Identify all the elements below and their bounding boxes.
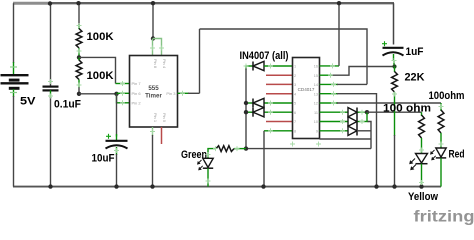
wire: CD4017 pin13 to ground (320, 94, 377, 187)
resistor R5 100ohm (438, 110, 444, 133)
wire: D1 to CD4017 pin row1 (264, 65, 293, 67)
resistor R6 green LED (216, 146, 234, 152)
svg-text:10uF: 10uF (92, 153, 115, 165)
svg-text:100K: 100K (87, 70, 114, 82)
wire: node G row to yellow LED resistor (367, 111, 422, 113)
wire: CD4017 bottom edge run to riser (320, 138, 372, 140)
LED D7 red (430, 148, 446, 160)
wire: bottom ground rail (13, 186, 441, 188)
wire: CD4017 pin16 to VCC rail (320, 3, 340, 66)
wire: top VCC rail (13, 2, 394, 4)
wire: diode bus vertical (245, 69, 247, 149)
capacitor C2 10uF polarized (106, 134, 128, 155)
svg-text:3: 3 (294, 83, 296, 87)
node E junction (244, 101, 248, 105)
svg-text:Green: Green (181, 149, 207, 161)
svg-text:22K: 22K (405, 72, 425, 84)
node F junction (244, 110, 248, 114)
wire: CD4017 pin10 row (320, 121, 349, 123)
capacitor C1 0.1uF (43, 87, 59, 98)
svg-text:Timer: Timer (145, 93, 162, 100)
svg-text:Pin 2: Pin 2 (132, 100, 142, 105)
LED D8 green (197, 158, 213, 170)
node B junction (77, 92, 81, 96)
wire: CD4017 pin11 row (320, 111, 349, 113)
junction dots top rail (48, 1, 341, 6)
svg-text:7: 7 (294, 120, 296, 124)
wire: node G down to D5 row (366, 112, 368, 121)
wire: VCC rail to 555 top pins (152, 3, 154, 38)
wire: row to yellow resistor (421, 112, 423, 116)
svg-text:100ohm: 100ohm (429, 90, 465, 102)
svg-text:Pin 6: Pin 6 (132, 91, 142, 96)
svg-text:Pin 4: Pin 4 (162, 59, 167, 69)
node C junction (114, 92, 118, 96)
svg-text:12: 12 (314, 102, 318, 106)
wire: CD4017 pin9 row (320, 130, 349, 132)
wire: CD4017 pin14 clock row (320, 83, 368, 85)
wire: node D to 555 pin4 (153, 39, 162, 56)
pin labels U1 (132, 59, 177, 123)
wire: CD4017 pin7 red stub (266, 121, 293, 123)
wire: CD4017 pin4 red stub (266, 93, 293, 95)
svg-text:9: 9 (316, 129, 318, 133)
wire: 100K R1 top lead (78, 3, 80, 29)
node G junction (365, 110, 369, 114)
svg-text:6: 6 (294, 111, 296, 115)
diode D6 IN4007 (348, 108, 357, 136)
svg-text:Pin 7: Pin 7 (132, 81, 142, 86)
wire: VCC rail drop to 1uF (393, 3, 395, 44)
wire: pin3 riser (199, 29, 201, 93)
wire: green LED to ground (207, 168, 209, 186)
wire: R4 to yellow LED (421, 138, 423, 154)
resistor R1 100K (76, 29, 82, 49)
svg-text:2: 2 (294, 74, 296, 78)
svg-text:Pin 8: Pin 8 (153, 59, 158, 69)
svg-text:555: 555 (148, 85, 159, 92)
wire: D5 cathode to riser (357, 121, 369, 123)
resistor R3 22K (392, 72, 398, 93)
node D junction (151, 36, 155, 40)
wire: R5 to red LED (440, 133, 442, 149)
wire: row drop to red resistor (440, 103, 442, 111)
wire: 0.1uF top lead (50, 4, 52, 86)
wire: 1uF to node H (393, 60, 395, 67)
svg-text:fritzing: fritzing (414, 209, 474, 226)
wire: node B to node C (79, 93, 117, 95)
pin labels U2 (294, 65, 318, 134)
wire: 0.1uF bottom lead (50, 97, 52, 187)
diode D5 IN4007 (348, 117, 357, 126)
wire: battery negative lead (13, 96, 15, 187)
op-amp U1 555 timer box (130, 56, 178, 128)
connection crosses (48, 23, 444, 185)
svg-text:Yellow: Yellow (408, 191, 438, 203)
svg-text:Pin 5: Pin 5 (162, 113, 167, 123)
svg-text:0.1uF: 0.1uF (54, 99, 81, 111)
node I junction (244, 146, 248, 150)
LED D6 yellow (409, 154, 427, 171)
wire: CD4017 pin8 to ground (264, 131, 293, 187)
wire: node C down to 10uF (116, 94, 118, 141)
wire: 555 pin3 output (178, 92, 200, 94)
svg-text:14: 14 (314, 83, 318, 87)
wire: node C to 555 pin6 (117, 92, 130, 94)
wire: D2 row (246, 102, 293, 104)
capacitor C3 1uF polarized (382, 41, 404, 61)
wire: 555 pin1 to ground (152, 127, 154, 187)
svg-text:1: 1 (294, 65, 296, 69)
wire: D6 cathode to riser (357, 130, 371, 132)
diode D2 IN4007 (253, 98, 264, 107)
resistor R4 100 ohm (419, 115, 425, 138)
svg-text:Pin 3: Pin 3 (166, 91, 176, 96)
junction dots bottom rail (48, 184, 423, 188)
svg-text:15: 15 (314, 74, 318, 78)
wire: R6 to green LED (208, 149, 216, 159)
wire: yellow LED to ground (421, 164, 423, 187)
svg-text:5: 5 (294, 102, 296, 106)
wire: CD4017 pin2 red stub (266, 74, 293, 76)
battery BT1 5V (1, 3, 29, 97)
wire: node A to 555 pin7 (79, 57, 130, 83)
wire: R1 to node A (78, 48, 80, 57)
svg-text:11: 11 (314, 111, 318, 115)
svg-text:Pin 1: Pin 1 (153, 113, 158, 123)
svg-text:13: 13 (314, 92, 318, 96)
wire: CD4017 pin12 row to red LED resistor (320, 102, 442, 104)
wire: D4 cathode to node G (357, 111, 367, 113)
wire: 555 pin5 red stub (161, 127, 163, 144)
wire: riser to green LED row (368, 122, 372, 149)
wire: green LED common row (246, 148, 371, 150)
svg-text:100 ohm: 100 ohm (383, 103, 431, 115)
svg-text:100K: 100K (87, 31, 114, 43)
node H junction (392, 64, 396, 68)
wire: red LED to ground rail end (440, 158, 442, 186)
svg-text:5V: 5V (20, 96, 36, 108)
wire: R2 bottom to node B (78, 80, 80, 94)
diode D1 IN4007 (253, 61, 264, 70)
node A junction (77, 55, 81, 59)
svg-text:IN4007 (all): IN4007 (all) (240, 50, 289, 62)
wire: CD4017 pin3 red stub (266, 83, 293, 85)
wire: resistor to node I (234, 148, 246, 150)
svg-text:1uF: 1uF (406, 46, 424, 58)
wire: CD4017 pin15 to RC node (320, 67, 395, 76)
wire: 22K bottom to ground (394, 92, 396, 187)
wire: 10uF bottom lead (116, 154, 118, 187)
svg-text:10: 10 (314, 120, 318, 124)
diode D4 IN4007 (348, 108, 357, 117)
svg-text:4: 4 (294, 92, 296, 96)
diode D3 IN4007 (253, 108, 264, 117)
svg-text:16: 16 (314, 65, 318, 69)
svg-text:CD4017: CD4017 (298, 87, 315, 92)
wire: node D to 555 pin8 (152, 39, 154, 56)
svg-text:8: 8 (294, 129, 296, 133)
svg-text:Red: Red (449, 149, 465, 161)
wire: D3 row (246, 111, 293, 113)
resistor R2 100K (76, 60, 82, 80)
wire: node A to R2 (78, 57, 80, 60)
wire: diode D1 row (246, 66, 253, 70)
wire: node H to 22K (394, 67, 396, 73)
wire: clock top run (200, 29, 368, 84)
IC U2 CD4017 box (293, 58, 320, 139)
wire: node C to 555 pin2 (117, 94, 130, 103)
